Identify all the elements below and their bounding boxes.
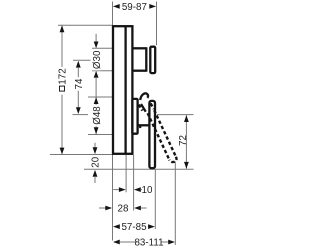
svg-text:172: 172 <box>57 68 68 84</box>
svg-text:20: 20 <box>90 156 101 167</box>
lever neck curl <box>140 93 148 100</box>
ext line knob-front top <box>156 2 158 46</box>
ext line escutcheon-top <box>88 96 131 98</box>
dimension diameter 48 <box>95 77 97 105</box>
ext line lever-bottom <box>84 168 194 170</box>
dimension 59-87 (top) <box>113 4 120 9</box>
ext line lever-pivot right <box>157 114 194 116</box>
dimension 72 (right) <box>185 115 187 169</box>
svg-text:59-87: 59-87 <box>122 2 147 13</box>
ext line escutcheon-bottom <box>88 134 131 136</box>
ext line plate-back bottom <box>125 155 127 192</box>
dimension 57-85 (bottom row 3) <box>113 224 120 229</box>
lever neck upper edge <box>141 104 146 112</box>
lever escutcheon <box>132 99 137 134</box>
ext line stem-top <box>92 47 133 49</box>
ext line wall top <box>112 2 114 26</box>
svg-text:83-111: 83-111 <box>134 237 163 248</box>
svg-text:72: 72 <box>178 135 189 146</box>
ext line wall bottom <box>112 155 114 241</box>
svg-text:Ø30: Ø30 <box>92 50 103 69</box>
lever rotated position (dashed) end cap <box>169 157 176 162</box>
dimension 74 <box>76 61 81 68</box>
shut-off handle knob <box>150 47 155 73</box>
ext line plate-bottom left <box>50 154 112 156</box>
ext line lever-front bottom <box>154 169 156 229</box>
svg-text:74: 74 <box>74 78 85 89</box>
lever rotated position (dashed) upper stub <box>151 103 154 109</box>
lever neck lower edge <box>137 124 150 126</box>
shut-off handle stem <box>133 47 146 71</box>
ext line lever-pivot left stub <box>73 114 89 116</box>
svg-text:57-85: 57-85 <box>121 222 147 233</box>
lever rotated position (dashed) right edge <box>154 110 176 157</box>
dimension 10 (bottom row 1) <box>113 189 120 191</box>
svg-text:28: 28 <box>118 203 129 214</box>
lever grip (solid position) <box>149 101 155 168</box>
dimension square 172 (left) <box>61 25 63 67</box>
in-wall body + wall plate (side view) <box>113 26 132 154</box>
svg-text:10: 10 <box>142 185 153 196</box>
dimension 83-111 (bottom row 4) <box>113 240 120 245</box>
ext line plate-top left <box>58 24 112 26</box>
lever rotated position (dashed) neck stub <box>139 105 143 111</box>
knob axis line <box>73 59 91 61</box>
ext line plate-front bottom <box>133 155 135 211</box>
dimension 20 <box>94 143 96 149</box>
lever rotated position (dashed) left edge <box>148 113 170 160</box>
ext line lever-tip bottom <box>174 162 176 246</box>
svg-text:Ø48: Ø48 <box>92 106 103 125</box>
lever neck tab <box>139 125 141 128</box>
dimension diameter 30 <box>95 34 97 42</box>
ext line stem-bottom <box>92 70 133 72</box>
dimension 28 (bottom row 2) <box>99 207 106 209</box>
